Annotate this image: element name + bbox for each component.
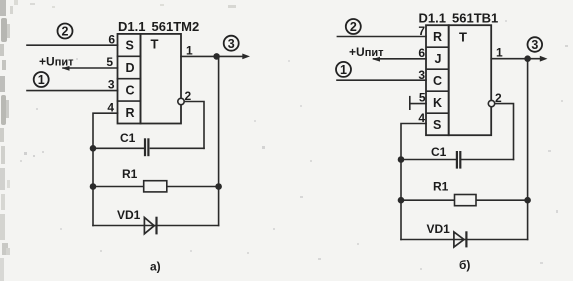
- node: junction dot output pin1 (right): [524, 55, 531, 62]
- svg-text:R1: R1: [122, 167, 138, 181]
- wire C1 row right (right circuit): [462, 159, 514, 161]
- svg-text:T: T: [459, 30, 467, 45]
- svg-text:561ТМ2: 561ТМ2: [152, 19, 200, 34]
- op-amp U2: IC D1.1 561TV1 body: [426, 25, 491, 135]
- resistor R1: [144, 181, 167, 192]
- wire C1 row left: [93, 147, 144, 149]
- node: junction dot left rail R1 (right): [398, 197, 405, 204]
- wire input R pin 7: [337, 36, 426, 38]
- wire R1 row right (right circuit): [476, 199, 528, 201]
- svg-text:+Uпит: +Uпит: [349, 45, 384, 59]
- node terminal 1 (circled): [34, 72, 49, 87]
- svg-text:VD1: VD1: [117, 208, 141, 222]
- wire input D pin 5 (from +Upit arrow): [63, 67, 118, 69]
- svg-text:7: 7: [418, 24, 425, 38]
- node terminal 3 (circled): [224, 36, 239, 51]
- svg-text:T: T: [151, 37, 159, 52]
- node terminal 2 circled (right): [346, 19, 361, 34]
- svg-text:3: 3: [531, 38, 538, 52]
- wire input J pin 6 (from +Upit arrow): [374, 58, 427, 60]
- svg-text:R: R: [126, 106, 135, 120]
- +Upit arrowhead: [62, 66, 70, 71]
- node: junction dot right rail R1: [215, 183, 222, 190]
- svg-text:6: 6: [418, 46, 425, 60]
- op-amp U1: IC D1.1 561TM2 body: [118, 34, 182, 124]
- inverted output bubble pin 2: [178, 98, 184, 104]
- svg-text:б): б): [459, 258, 470, 272]
- resistor R1 (right circuit): [455, 195, 477, 206]
- wire output pin 1 (right): [491, 58, 544, 60]
- svg-text:S: S: [433, 118, 441, 132]
- svg-text:K: K: [433, 96, 442, 110]
- node terminal 2 (circled): [58, 24, 73, 39]
- inverted output bubble pin 2 (right): [488, 100, 494, 106]
- svg-text:2: 2: [62, 25, 69, 39]
- wire C1 row left (right circuit): [401, 159, 456, 161]
- svg-text:R: R: [433, 30, 442, 44]
- svg-text:6: 6: [108, 33, 115, 47]
- capacitor C1 (right circuit): [457, 151, 460, 169]
- wire right rail (right circuit): [527, 59, 529, 240]
- wire input K pin 5 stub: [410, 103, 426, 105]
- wire from inverted output pin 2 (right): [495, 104, 514, 160]
- svg-text:1: 1: [186, 44, 193, 58]
- diode VD1: [144, 217, 156, 235]
- wire VD1 row: [93, 225, 219, 227]
- svg-text:R1: R1: [433, 180, 449, 194]
- output arrowhead pin 1: [242, 54, 250, 60]
- svg-text:D1.1: D1.1: [118, 19, 145, 34]
- svg-text:4: 4: [107, 100, 114, 114]
- node: junction dot right rail R1 (right): [524, 197, 531, 204]
- wire right rail: [218, 56, 220, 225]
- wire VD1 row (right circuit): [401, 239, 528, 241]
- svg-text:+Uпит: +Uпит: [39, 55, 74, 69]
- wire input S pin 4: [401, 124, 426, 240]
- svg-text:C1: C1: [431, 145, 447, 159]
- K stub end bar: [409, 97, 411, 110]
- wire C1 row right: [151, 147, 205, 149]
- wire R1 row left (right circuit): [401, 199, 455, 201]
- svg-text:1: 1: [38, 73, 45, 87]
- wire input R pin 4: [93, 113, 118, 225]
- node terminal 3 circled (right): [528, 37, 543, 52]
- svg-text:а): а): [150, 260, 161, 274]
- svg-text:3: 3: [108, 78, 115, 92]
- wire output pin 1: [181, 55, 246, 57]
- svg-text:2: 2: [185, 89, 192, 103]
- output arrowhead pin 1 (right): [540, 56, 548, 62]
- node: junction dot left rail R1: [90, 183, 97, 190]
- capacitor C1: [145, 138, 148, 156]
- wire input C pin 3: [27, 90, 118, 92]
- svg-text:VD1: VD1: [427, 222, 451, 236]
- svg-text:J: J: [435, 52, 442, 66]
- wire R1 row left: [93, 186, 144, 188]
- svg-text:2: 2: [495, 91, 502, 105]
- svg-text:5: 5: [419, 91, 426, 105]
- diode VD1 (right circuit): [454, 231, 467, 247]
- svg-text:D: D: [126, 61, 135, 75]
- svg-text:3: 3: [418, 68, 425, 82]
- svg-text:1: 1: [340, 63, 347, 77]
- node: junction dot left rail C1: [90, 145, 97, 152]
- +Upit arrowhead (right): [373, 57, 381, 62]
- node: junction dot output pin1: [213, 53, 220, 60]
- svg-text:C: C: [433, 74, 442, 88]
- svg-text:1: 1: [496, 46, 503, 60]
- svg-text:5: 5: [106, 55, 113, 69]
- svg-text:4: 4: [418, 111, 425, 125]
- svg-text:S: S: [126, 39, 134, 53]
- svg-text:C1: C1: [120, 131, 136, 145]
- svg-text:2: 2: [350, 20, 357, 34]
- wire input S pin 6: [27, 44, 118, 46]
- svg-text:C: C: [126, 83, 135, 97]
- svg-text:561ТВ1: 561ТВ1: [452, 11, 498, 26]
- wire R1 row right: [167, 186, 219, 188]
- wire from inverted output pin 2: [184, 102, 204, 149]
- node terminal 1 circled (right): [336, 62, 351, 77]
- svg-text:3: 3: [228, 37, 235, 51]
- node: junction dot left rail C1 (right): [398, 156, 405, 163]
- wire input C pin 3 (right): [337, 79, 426, 81]
